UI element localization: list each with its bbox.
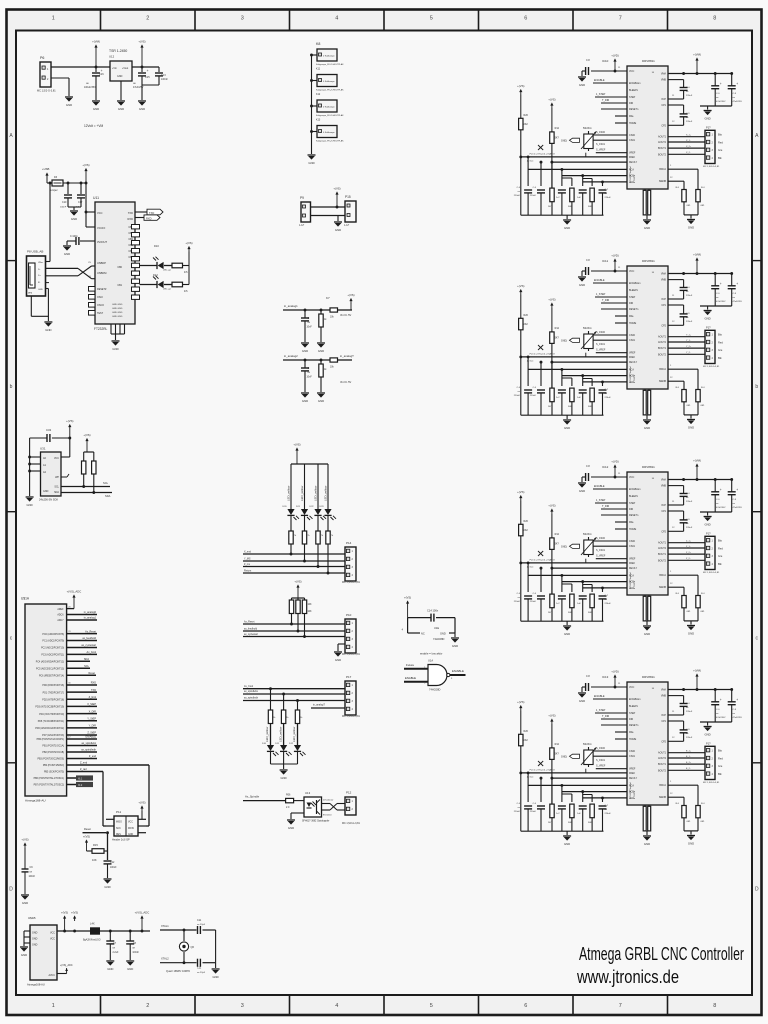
svg-text:ue 22pF: ue 22pF xyxy=(197,972,206,974)
svg-text:VCC: VCC xyxy=(629,476,634,479)
svg-text:X_end: X_end xyxy=(244,551,252,554)
svg-text:RCA: RCA xyxy=(629,168,634,171)
svg-text:BOUT2: BOUT2 xyxy=(658,353,667,356)
svg-text:5K?: 5K? xyxy=(555,137,560,140)
svg-text:VCCIO: VCCIO xyxy=(97,226,105,230)
svg-text:50kOhm: 50kOhm xyxy=(583,534,592,536)
svg-text:in_analog1: in_analog1 xyxy=(84,617,97,620)
svg-text:Ax_Cool: Ax_Cool xyxy=(87,651,97,654)
svg-text:U11: U11 xyxy=(93,196,99,200)
svg-text:LED_yellow: LED_yellow xyxy=(313,485,317,501)
svg-text:100nF: 100nF xyxy=(110,867,117,869)
svg-text:VREF: VREF xyxy=(629,558,636,561)
svg-text:DRV8811: DRV8811 xyxy=(642,59,655,63)
svg-text:Z_limit: Z_limit xyxy=(89,696,97,699)
svg-text:DEC/LY: DEC/LY xyxy=(629,362,638,364)
svg-text:OSCI: OSCI xyxy=(97,296,103,299)
svg-text:DRV8811: DRV8811 xyxy=(642,675,655,679)
svg-text:Kaltgerape_FK-2LHOLTPLAK: Kaltgerape_FK-2LHOLTPLAK xyxy=(316,89,344,92)
svg-text:+(VS): +(VS) xyxy=(61,911,68,915)
svg-text:VCC: VCC xyxy=(629,70,634,73)
svg-text:Z_ms: Z_ms xyxy=(244,563,251,566)
svg-text:DRV8811: DRV8811 xyxy=(642,259,655,263)
svg-text:2K2: 2K2 xyxy=(524,123,529,126)
svg-text:FREF: FREF xyxy=(629,357,636,359)
svg-text:GND): GND) xyxy=(561,340,567,343)
svg-text:ue 22pF: ue 22pF xyxy=(197,924,206,926)
svg-text:E_1+: E_1+ xyxy=(686,751,692,753)
svg-text:SCL: SCL xyxy=(103,481,109,485)
svg-text:Bla: Bla xyxy=(718,749,722,753)
svg-text:Z_StEP: Z_StEP xyxy=(87,732,96,735)
svg-text:1-G?: 1-G? xyxy=(344,225,350,227)
svg-text:0 Kaltlampe: 0 Kaltlampe xyxy=(323,80,335,83)
svg-text:TEST: TEST xyxy=(97,312,104,315)
svg-text:BLEEPn: BLEEPn xyxy=(629,89,639,92)
svg-text:CP1: CP1 xyxy=(661,510,666,513)
svg-text:+(VM): +(VM) xyxy=(693,459,701,463)
svg-text:ISENB: ISENB xyxy=(659,796,667,799)
svg-text:CP2: CP2 xyxy=(661,124,666,127)
svg-text:R12: R12 xyxy=(555,127,560,130)
svg-text:C11: C11 xyxy=(197,967,202,970)
svg-text:XTAL2: XTAL2 xyxy=(161,957,169,961)
svg-text:GND: GND xyxy=(335,228,341,232)
svg-text:220nF: 220nF xyxy=(605,603,612,605)
svg-text:50kOhm: 50kOhm xyxy=(583,328,592,330)
svg-text:S_CS00: S_CS00 xyxy=(596,331,606,334)
svg-text:P1?: P1? xyxy=(706,742,711,746)
svg-text:EN/ABLEn: EN/ABLEn xyxy=(629,82,641,85)
svg-text:VBus: VBus xyxy=(38,262,44,264)
svg-text:RCB: RCB xyxy=(629,582,634,584)
svg-text:2.2uF: 2.2uF xyxy=(113,952,119,954)
svg-text:100uF/35V: 100uF/35V xyxy=(84,86,96,89)
svg-text:K7: K7 xyxy=(326,296,330,300)
svg-text:EN/ABLE: EN/ABLE xyxy=(594,79,605,82)
svg-text:R06: R06 xyxy=(286,794,291,797)
svg-text:+(VS)_ADC: +(VS)_ADC xyxy=(67,590,82,594)
svg-text:Poti 0..2.5V=0.4..2.5A/0.8: Poti 0..2.5V=0.4..2.5A/0.8 xyxy=(530,353,556,356)
svg-text:CB0: CB0 xyxy=(117,266,122,269)
svg-text:Return: Return xyxy=(244,570,252,573)
svg-text:1: 1 xyxy=(52,16,55,22)
svg-text:GND: GND xyxy=(704,317,710,321)
svg-text:E_1-: E_1- xyxy=(686,756,691,758)
svg-text:Y_DIR: Y_DIR xyxy=(89,725,97,728)
svg-text:CP1: CP1 xyxy=(661,304,666,307)
svg-text:SCL: SCL xyxy=(54,486,59,489)
svg-text:220nF: 220nF xyxy=(605,397,612,399)
svg-text:2K2: 2K2 xyxy=(524,529,529,532)
svg-text:GND: GND xyxy=(318,349,324,353)
svg-text:BLEEPn: BLEEPn xyxy=(629,705,639,708)
svg-text:4: 4 xyxy=(335,16,338,22)
svg-text:VCC: VCC xyxy=(50,932,55,935)
svg-text:220nF: 220nF xyxy=(686,295,693,297)
svg-text:VGD: VGD xyxy=(629,798,634,800)
svg-text:VMB: VMB xyxy=(661,485,667,488)
svg-text:C14 100n: C14 100n xyxy=(427,609,439,613)
svg-text:GND: GND xyxy=(579,489,585,493)
svg-text:AOUT1: AOUT1 xyxy=(658,136,667,139)
svg-text:47uF/35V: 47uF/35V xyxy=(716,717,726,719)
svg-text:PC2 (ADC2/PCINT10): PC2 (ADC2/PCINT10) xyxy=(41,647,64,650)
svg-text:GND: GND xyxy=(32,944,38,947)
svg-text:220nF: 220nF xyxy=(605,813,612,815)
svg-text:USBDP: USBDP xyxy=(97,261,106,265)
svg-text:S_CS01: S_CS01 xyxy=(596,549,606,552)
svg-text:7: 7 xyxy=(619,1003,622,1009)
svg-text:Vin=0..5V: Vin=0..5V xyxy=(340,380,352,384)
svg-text:ax_cyclestart: ax_cyclestart xyxy=(244,633,258,636)
svg-text:220nF: 220nF xyxy=(686,121,693,123)
svg-text:Poti 0..2.5V=0.4..2.5A/0.8: Poti 0..2.5V=0.4..2.5A/0.8 xyxy=(530,769,556,772)
svg-text:Atmega GRBL CNC Controller: Atmega GRBL CNC Controller xyxy=(579,944,744,964)
svg-text:E/emitter: E/emitter xyxy=(323,814,332,817)
svg-text:+(VS): +(VS) xyxy=(548,298,555,302)
svg-text:R0a: R0a xyxy=(629,521,634,524)
svg-text:CB1: CB1 xyxy=(117,284,122,287)
svg-text:HOME: HOME xyxy=(629,122,637,125)
svg-text:4.7 MCk Thermal: 4.7 MCk Thermal xyxy=(629,366,632,383)
svg-text:enable = low aktiv: enable = low aktiv xyxy=(420,652,443,656)
svg-text:PC0 (ADC0/PCINT8): PC0 (ADC0/PCINT8) xyxy=(42,633,64,636)
svg-text:ADC6: ADC6 xyxy=(57,614,64,617)
svg-text:C13: C13 xyxy=(161,74,166,77)
svg-text:4.7 MCk: 4.7 MCk xyxy=(634,374,636,383)
svg-text:EN/ABLE: EN/ABLE xyxy=(594,695,605,698)
svg-text:R0a: R0a xyxy=(629,115,634,118)
svg-text:3: 3 xyxy=(241,16,244,22)
svg-text:XTAL1: XTAL1 xyxy=(161,924,169,928)
svg-text:Vin=0..5V: Vin=0..5V xyxy=(340,313,352,317)
svg-text:Red: Red xyxy=(718,546,723,550)
svg-text:+(VS): +(VS) xyxy=(82,163,89,167)
svg-text:T_DIR: T_DIR xyxy=(602,715,609,718)
svg-text:R0a: R0a xyxy=(629,315,634,318)
svg-text:U13: U13 xyxy=(305,791,311,795)
svg-text:Poti 0..2.5V=0.4..2.5A/0.8: Poti 0..2.5V=0.4..2.5A/0.8 xyxy=(530,559,556,562)
svg-text:56K: 56K xyxy=(568,206,572,208)
svg-text:GND): GND) xyxy=(561,756,567,759)
svg-text:LED_yellow: LED_yellow xyxy=(323,485,327,501)
svg-text:R12: R12 xyxy=(555,533,560,536)
svg-text:FREF: FREF xyxy=(629,773,636,775)
svg-text:CP1: CP1 xyxy=(661,720,666,723)
svg-text:S_CS00: S_CS00 xyxy=(596,131,606,134)
svg-text:MC 1,5/4-G-3,81: MC 1,5/4-G-3,81 xyxy=(703,572,720,574)
svg-text:S_VREF: S_VREF xyxy=(596,555,606,558)
svg-text:DIR: DIR xyxy=(629,718,633,721)
svg-text:1nF: 1nF xyxy=(577,603,581,605)
svg-text:+(VS)_ADC: +(VS)_ADC xyxy=(60,964,73,967)
svg-text:GND: GND xyxy=(564,632,570,636)
svg-text:C:8: C:8 xyxy=(586,59,590,62)
svg-text:NC: NC xyxy=(421,632,425,636)
svg-text:VCC: VCC xyxy=(128,822,133,824)
svg-text:GND: GND xyxy=(127,967,133,971)
svg-text:GND: GND xyxy=(118,107,124,111)
svg-text:AVCC: AVCC xyxy=(49,974,56,977)
svg-text:PB0 (PCINT0/CLKO/ICP1): PB0 (PCINT0/CLKO/ICP1) xyxy=(37,739,65,741)
svg-text:HOME: HOME xyxy=(629,322,637,325)
svg-text:47uF/25V: 47uF/25V xyxy=(133,86,144,89)
svg-text:PD4 (XCK/T0/PCINT20): PD4 (XCK/T0/PCINT20) xyxy=(39,714,64,716)
svg-text:GND: GND xyxy=(45,328,51,332)
svg-text:in_analog1: in_analog1 xyxy=(284,304,298,308)
svg-text:VCP: VCP xyxy=(661,504,666,507)
svg-text:R12: R12 xyxy=(555,327,560,330)
svg-text:+(VD): +(VD) xyxy=(611,460,618,464)
svg-text:DEC/LY: DEC/LY xyxy=(629,162,638,164)
svg-text:R15: R15 xyxy=(93,843,98,847)
svg-text:1nF: 1nF xyxy=(577,197,581,199)
svg-text:R26: R26 xyxy=(524,730,529,733)
svg-text:AOUT2: AOUT2 xyxy=(658,141,667,144)
svg-text:RESETn: RESETn xyxy=(629,108,639,111)
svg-text:VMB: VMB xyxy=(661,79,667,82)
svg-text:OSCO: OSCO xyxy=(97,304,104,307)
svg-text:in_analogT: in_analogT xyxy=(340,354,354,358)
svg-text:56K: 56K xyxy=(568,612,572,614)
svg-text:FREF: FREF xyxy=(629,157,636,159)
svg-text:E_2+: E_2+ xyxy=(686,762,692,764)
svg-text:+(VS): +(VS) xyxy=(185,241,192,245)
svg-text:C:8: C:8 xyxy=(586,675,590,678)
svg-text:D: D xyxy=(755,886,759,892)
svg-text:CP2: CP2 xyxy=(661,740,666,743)
svg-text:+(VS): +(VS) xyxy=(83,835,90,839)
svg-text:PC1 (ADC1/PCINT9): PC1 (ADC1/PCINT9) xyxy=(42,640,64,643)
svg-text:GND: GND xyxy=(117,75,123,78)
svg-text:GND: GND xyxy=(579,83,585,87)
svg-text:P11: P11 xyxy=(116,810,121,814)
svg-text:2K2: 2K2 xyxy=(524,323,529,326)
svg-text:U$1A: U$1A xyxy=(21,597,30,601)
svg-text:TSR 1-2450: TSR 1-2450 xyxy=(109,49,127,53)
svg-text:Ax_Reset: Ax_Reset xyxy=(85,630,96,633)
svg-text:GND: GND xyxy=(688,632,694,636)
svg-text:7: 7 xyxy=(619,16,622,22)
svg-text:D10: D10 xyxy=(154,244,159,248)
svg-text:IC11: IC11 xyxy=(602,259,608,263)
svg-text:GND: GND xyxy=(579,699,585,703)
svg-text:DIR: DIR xyxy=(629,302,633,305)
svg-text:+(VS): +(VS) xyxy=(517,490,524,494)
svg-text:PD3 (INT1/OC2B/PCINT19): PD3 (INT1/OC2B/PCINT19) xyxy=(35,707,64,709)
svg-text:LED_yellow: LED_yellow xyxy=(286,485,290,501)
svg-text:X_StEP: X_StEP xyxy=(87,703,96,706)
svg-text:P6: P6 xyxy=(40,56,44,60)
svg-text:Red: Red xyxy=(718,140,723,144)
svg-text:T_DIR: T_DIR xyxy=(602,505,609,508)
svg-text:C16: C16 xyxy=(99,73,104,76)
svg-text:BOUT1: BOUT1 xyxy=(658,347,667,350)
svg-text:PD1 (TXD/PCINT17): PD1 (TXD/PCINT17) xyxy=(43,692,65,694)
svg-text:IC13: IC13 xyxy=(602,675,609,679)
svg-text:+USB: +USB xyxy=(42,167,50,171)
svg-text:+: + xyxy=(736,82,738,86)
svg-text:ENABLE: ENABLE xyxy=(405,676,416,680)
svg-text:RES: RES xyxy=(116,834,121,836)
svg-text:BgA2KVlineLISO: BgA2KVlineLISO xyxy=(83,939,101,942)
svg-text:56K: 56K xyxy=(568,822,572,824)
svg-text:VCC: VCC xyxy=(54,457,59,460)
svg-text:U1E: U1E xyxy=(434,626,439,630)
svg-text:+(VS): +(VS) xyxy=(517,284,524,288)
svg-text:T_DIR: T_DIR xyxy=(602,299,609,302)
svg-text:3V3OUT: 3V3OUT xyxy=(97,240,108,244)
svg-text:+(VS): +(VS) xyxy=(548,714,555,718)
svg-text:47uF/35V: 47uF/35V xyxy=(716,507,726,509)
svg-text:+(VM): +(VM) xyxy=(693,253,701,257)
svg-text:+: + xyxy=(147,69,149,73)
svg-text:STEP: STEP xyxy=(629,96,636,99)
svg-text:MISO: MISO xyxy=(116,822,122,824)
svg-text:GND: GND xyxy=(107,967,113,971)
svg-text:VREF: VREF xyxy=(629,352,636,355)
svg-text:Z_2-: Z_2- xyxy=(686,558,691,560)
svg-text:RESET#: RESET# xyxy=(97,288,107,291)
svg-text:MC 1,5/4-G-3,81: MC 1,5/4-G-3,81 xyxy=(703,782,720,784)
svg-text:0 Kaltlampe: 0 Kaltlampe xyxy=(323,55,335,58)
svg-text:+: + xyxy=(736,282,738,286)
svg-text:EN/ABLEn: EN/ABLEn xyxy=(629,488,641,491)
svg-text:P17: P17 xyxy=(346,675,352,679)
svg-text:ADC7: ADC7 xyxy=(57,619,64,622)
svg-text:GND GND: GND GND xyxy=(112,308,123,310)
svg-text:+(VS): +(VS) xyxy=(294,580,301,584)
svg-text:Q6: Q6 xyxy=(191,945,195,949)
svg-text:CS01: CS01 xyxy=(629,755,636,758)
svg-text:EN/ABLE: EN/ABLE xyxy=(594,485,605,488)
svg-text:CP1: CP1 xyxy=(661,104,666,107)
svg-text:CS00: CS00 xyxy=(629,134,636,137)
svg-text:Z_1-: Z_1- xyxy=(686,546,691,548)
svg-text:47uF/35V: 47uF/35V xyxy=(716,101,726,103)
svg-text:AOUT2: AOUT2 xyxy=(658,757,667,760)
svg-text:GND: GND xyxy=(21,953,27,957)
svg-text:Ax_Reset: Ax_Reset xyxy=(244,621,255,624)
svg-text:RCB: RCB xyxy=(629,376,634,378)
svg-text:FREF: FREF xyxy=(629,563,636,565)
svg-text:1_STEP: 1_STEP xyxy=(596,293,606,296)
svg-text:Bla: Bla xyxy=(718,539,722,543)
svg-text:VGD: VGD xyxy=(629,182,634,184)
svg-text:PB3 (PCINT3/OC2/MOSI): PB3 (PCINT3/OC2/MOSI) xyxy=(37,759,64,761)
svg-text:PB1 (PCINT1/OC1A): PB1 (PCINT1/OC1A) xyxy=(42,745,64,748)
svg-text:4.7 MCk Thermal: 4.7 MCk Thermal xyxy=(629,782,632,799)
svg-text:MINI: MINI xyxy=(28,293,33,295)
svg-text:EN/ABLEn: EN/ABLEn xyxy=(629,698,641,701)
svg-text:SDA: SDA xyxy=(84,658,89,661)
svg-text:GND: GND xyxy=(64,252,70,256)
svg-text:5K?: 5K? xyxy=(555,337,560,340)
svg-text:5K?: 5K? xyxy=(555,753,560,756)
svg-text:1_STEP: 1_STEP xyxy=(596,499,606,502)
svg-text:+Vin: +Vin xyxy=(112,67,117,70)
svg-text:CS00: CS00 xyxy=(629,540,636,543)
svg-text:+(VS): +(VS) xyxy=(83,433,90,437)
svg-text:RESETn: RESETn xyxy=(629,514,639,517)
svg-text:GND: GND xyxy=(212,975,218,979)
svg-text:Y_StEP: Y_StEP xyxy=(87,717,96,720)
svg-text:BDCA: BDCA xyxy=(659,784,666,787)
svg-text:BOUT2: BOUT2 xyxy=(658,769,667,772)
svg-text:R0a: R0a xyxy=(629,731,634,734)
svg-text:+(VS): +(VS) xyxy=(293,443,300,447)
svg-text:BDCA: BDCA xyxy=(659,368,666,371)
svg-text:IC10: IC10 xyxy=(602,59,609,63)
svg-text:K8: K8 xyxy=(316,42,320,46)
svg-text:56K: 56K xyxy=(588,822,592,824)
svg-text:GND: GND xyxy=(564,226,570,230)
svg-text:GND: GND xyxy=(644,632,650,636)
svg-text:GND GND: GND GND xyxy=(112,316,123,318)
svg-text:S_CS00: S_CS00 xyxy=(596,747,606,750)
svg-text:50kOhm: 50kOhm xyxy=(583,744,592,746)
svg-text:+(VS): +(VS) xyxy=(71,911,78,915)
svg-text:220nF: 220nF xyxy=(530,195,537,197)
svg-text:4.7 MCk: 4.7 MCk xyxy=(634,790,636,799)
svg-text:MC 1,5/4-G-3,81: MC 1,5/4-G-3,81 xyxy=(342,715,360,718)
svg-text:S_CS00: S_CS00 xyxy=(596,537,606,540)
svg-text:ISENB: ISENB xyxy=(659,380,667,383)
svg-text:220nF: 220nF xyxy=(514,395,521,397)
svg-text:8: 8 xyxy=(713,16,716,22)
svg-text:GND: GND xyxy=(128,834,133,836)
svg-text:SCK: SCK xyxy=(116,828,121,830)
svg-text:HOME: HOME xyxy=(629,738,637,741)
svg-text:GND: GND xyxy=(452,644,458,648)
svg-text:GND: GND xyxy=(66,103,72,107)
svg-text:BDCA: BDCA xyxy=(659,574,666,577)
svg-text:GND: GND xyxy=(579,283,585,287)
svg-text:+(VS): +(VS) xyxy=(21,838,28,842)
svg-text:1_STEP: 1_STEP xyxy=(596,709,606,712)
svg-text:ax_feedhold: ax_feedhold xyxy=(82,637,96,640)
svg-text:RXD: RXD xyxy=(146,217,152,221)
svg-text:GND: GND xyxy=(564,842,570,846)
svg-text:IC12: IC12 xyxy=(602,465,609,469)
svg-text:GND: GND xyxy=(302,349,308,353)
svg-text:PD0 (RXD/PCINT16): PD0 (RXD/PCINT16) xyxy=(42,685,64,687)
svg-text:GND: GND xyxy=(688,226,694,230)
svg-text:S_VREF: S_VREF xyxy=(596,765,606,768)
svg-text:0 Kaltlampe: 0 Kaltlampe xyxy=(323,106,335,109)
svg-text:ax_spindlefw: ax_spindlefw xyxy=(244,690,258,693)
svg-text:Gre: Gre xyxy=(718,554,723,558)
svg-text:+(VM): +(VM) xyxy=(92,40,100,44)
svg-text:R12: R12 xyxy=(555,743,560,746)
svg-text:Y_MS: Y_MS xyxy=(244,558,251,561)
svg-text:Reset: Reset xyxy=(84,827,91,831)
svg-text:P12: P12 xyxy=(346,791,352,795)
svg-text:U1A: U1A xyxy=(428,659,433,663)
svg-text:X_1+: X_1+ xyxy=(686,135,692,137)
svg-text:+(VD): +(VD) xyxy=(611,670,618,674)
svg-text:PC5 (ADC5/SCL/PCINT13): PC5 (ADC5/SCL/PCINT13) xyxy=(36,668,64,671)
svg-text:+(VS): +(VS) xyxy=(347,293,354,297)
svg-text:+: + xyxy=(720,698,722,702)
svg-text:PD5 (T1/OC0B/PCINT21): PD5 (T1/OC0B/PCINT21) xyxy=(38,721,65,723)
svg-text:0 Kaltlampe: 0 Kaltlampe xyxy=(323,131,335,134)
svg-text:Atmega168-AU: Atmega168-AU xyxy=(27,983,45,987)
svg-text:10nF: 10nF xyxy=(307,327,313,329)
svg-text:Ax_Spindle: Ax_Spindle xyxy=(245,795,260,799)
svg-text:GND: GND xyxy=(308,161,314,165)
